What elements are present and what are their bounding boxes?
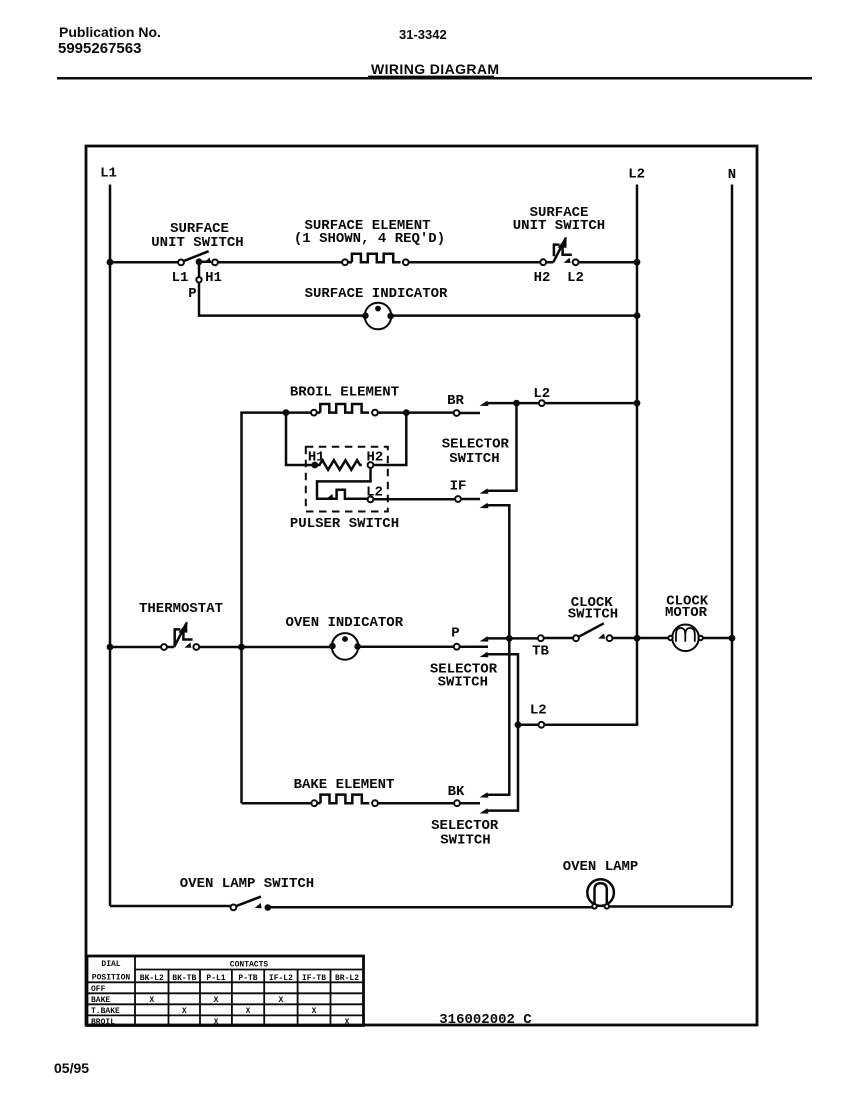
pulser H2 terminal: [368, 462, 374, 468]
wire broil left vertical (runs down to bake line): [242, 413, 311, 804]
surface unit switch (right) L2 terminal: [573, 259, 579, 265]
surface element heater: [352, 254, 401, 263]
wire broil line right part: [317, 411, 320, 414]
pulser L2 terminal: [368, 497, 374, 503]
wire L2 bus vertical: [636, 185, 639, 726]
pulser dashed enclosure: [306, 447, 388, 512]
BR terminal: [454, 410, 460, 416]
oven lamp switch left terminal: [231, 905, 237, 911]
svg-text:316002002 C: 316002002 C: [439, 1012, 532, 1028]
svg-text:BAKE ELEMENT: BAKE ELEMENT: [294, 777, 395, 793]
svg-text:L1: L1: [172, 270, 189, 286]
junction broil-left vertical crossing: [238, 644, 245, 651]
selector arm IF upper arrowhead: [480, 488, 489, 493]
svg-text:L2: L2: [533, 386, 550, 402]
svg-text:OFF: OFF: [91, 985, 106, 994]
BK terminal: [454, 800, 460, 806]
svg-text:OVEN LAMP: OVEN LAMP: [563, 859, 639, 875]
wire selector arm BR: [486, 402, 517, 405]
oven lamp: [587, 879, 614, 908]
svg-text:UNIT SWITCH: UNIT SWITCH: [513, 218, 605, 234]
svg-text:P-TB: P-TB: [238, 974, 257, 983]
svg-text:SURFACE INDICATOR: SURFACE INDICATOR: [305, 286, 448, 302]
wire N bus vertical: [731, 185, 734, 907]
svg-text:T.BAKE: T.BAKE: [91, 1007, 120, 1016]
bake element heater: [321, 795, 370, 804]
clock switch arm: [578, 623, 604, 637]
svg-text:P: P: [188, 286, 196, 302]
svg-text:SWITCH: SWITCH: [449, 451, 499, 467]
wire selector P upper arm: [486, 637, 509, 640]
thermostat left terminal: [161, 644, 167, 650]
svg-text:X: X: [149, 996, 154, 1005]
wire pulser internal drop: [317, 468, 371, 499]
surface unit switch (right) H2 terminal: [540, 259, 546, 265]
wire clock line: [509, 637, 538, 640]
wire lamp line left: [110, 905, 231, 908]
CONTACTS TABLE: [87, 956, 364, 1027]
surface unit switch (left) arm: [183, 251, 208, 261]
wire pulser output to IF: [373, 498, 455, 501]
junction P branch: [196, 258, 203, 265]
wire thermostat line left: [110, 646, 161, 649]
header rule: [57, 77, 812, 80]
svg-text:IF: IF: [450, 478, 467, 494]
table row lines: [87, 970, 364, 1016]
selector arm P upper arrowhead: [480, 636, 489, 641]
selector arm BK upper arrowhead: [480, 792, 489, 797]
svg-text:X: X: [214, 996, 219, 1005]
surface element right terminal: [403, 259, 409, 265]
svg-text:(1 SHOWN, 4 REQ'D): (1 SHOWN, 4 REQ'D): [294, 231, 445, 247]
junction L2 main line: [634, 259, 641, 266]
TB terminal: [538, 635, 544, 641]
svg-text:POSITION: POSITION: [92, 974, 131, 983]
svg-text:PULSER SWITCH: PULSER SWITCH: [290, 516, 399, 532]
svg-text:X: X: [246, 1007, 251, 1016]
svg-text:P: P: [451, 626, 459, 642]
svg-text:BROIL: BROIL: [91, 1018, 115, 1027]
svg-text:05/95: 05/95: [54, 1060, 89, 1076]
svg-text:BR: BR: [447, 393, 464, 409]
svg-text:MOTOR: MOTOR: [665, 605, 708, 621]
svg-text:L2: L2: [567, 270, 584, 286]
svg-text:BAKE: BAKE: [91, 996, 110, 1005]
surface unit switch (left) contact segment: [199, 261, 211, 264]
junction pulser H1: [311, 462, 318, 469]
schematic border box: [86, 146, 757, 1025]
svg-text:X: X: [312, 1007, 317, 1016]
junction L2 bus link: [634, 400, 641, 407]
bake element left terminal: [311, 800, 317, 806]
svg-text:CONTACTS: CONTACTS: [230, 961, 269, 970]
selector arm P lower arrowhead: [480, 652, 489, 657]
broil element left terminal: [311, 410, 317, 416]
wire bake line: [242, 802, 312, 805]
surface indicator lamp: [362, 303, 394, 330]
svg-text:IF-TB: IF-TB: [302, 974, 326, 983]
svg-text:P-L1: P-L1: [206, 974, 225, 983]
P branch terminal circle: [196, 277, 201, 282]
svg-text:X: X: [345, 1018, 350, 1027]
oven lamp switch right terminal dot: [265, 904, 272, 911]
junction N clock line: [729, 635, 736, 642]
oven lamp switch arm: [236, 897, 261, 907]
svg-text:L2: L2: [530, 703, 547, 719]
junction L1 main line: [107, 259, 114, 266]
wire pulser loop left vertical: [286, 413, 312, 465]
selector arm BR arrowhead: [480, 401, 489, 406]
junction L1 thermostat line: [107, 644, 114, 651]
svg-text:BR-L2: BR-L2: [335, 974, 359, 983]
broil element heater: [320, 404, 369, 413]
clock motor: [668, 625, 703, 652]
pulser switch arrowhead: [326, 494, 334, 499]
junction broil loop right: [403, 409, 410, 416]
wire main surface line segments: [110, 261, 178, 264]
svg-text:WIRING DIAGRAM: WIRING DIAGRAM: [371, 61, 499, 77]
clock switch right terminal: [607, 635, 613, 641]
wire L2 link line: [517, 402, 638, 405]
svg-text:H1: H1: [205, 270, 222, 286]
svg-text:OVEN LAMP SWITCH: OVEN LAMP SWITCH: [180, 876, 314, 892]
pulser heater zigzag: [315, 460, 362, 470]
oven indicator lamp: [329, 633, 361, 660]
svg-text:BK-TB: BK-TB: [172, 974, 196, 983]
L2 link terminal: [539, 400, 545, 406]
svg-text:X: X: [278, 996, 283, 1005]
svg-text:X: X: [182, 1007, 187, 1016]
svg-text:BROIL ELEMENT: BROIL ELEMENT: [290, 385, 399, 401]
svg-text:BK-L2: BK-L2: [140, 974, 164, 983]
thermostat flag symbol: [166, 622, 187, 647]
svg-text:H2: H2: [534, 270, 551, 286]
wire selector P lower arm to vertical: [486, 654, 518, 810]
wire L2 stub line: [518, 724, 539, 727]
selector arm BK lower arrowhead: [480, 808, 489, 813]
svg-text:SWITCH: SWITCH: [568, 606, 618, 622]
svg-text:DIAL: DIAL: [101, 960, 120, 969]
junction L2 clock line: [634, 635, 641, 642]
bake element right terminal: [372, 800, 378, 806]
surface unit switch (left) L1 terminal: [178, 260, 184, 266]
clock switch left terminal: [573, 635, 579, 641]
broil element right terminal: [372, 410, 378, 416]
svg-text:TB: TB: [532, 644, 549, 660]
svg-text:SWITCH: SWITCH: [438, 674, 488, 690]
P terminal: [454, 644, 460, 650]
surface unit switch (left) arrowhead: [204, 258, 211, 263]
selector arm IF lower arrowhead: [480, 503, 489, 508]
wire thermostat line to P: [199, 646, 332, 649]
wire pulser loop right vertical: [373, 413, 406, 465]
surface unit switch (right) flag symbol: [545, 238, 566, 263]
svg-text:L2: L2: [628, 167, 645, 183]
clock switch arrowhead: [598, 634, 605, 639]
surface unit switch (left) H1 terminal: [212, 260, 218, 266]
svg-text:IF-L2: IF-L2: [269, 974, 293, 983]
oven lamp switch arrowhead: [255, 903, 262, 908]
surface element left terminal: [342, 259, 348, 265]
svg-text:UNIT SWITCH: UNIT SWITCH: [151, 235, 243, 251]
wire selector IF lower arm to vertical: [486, 505, 509, 794]
svg-text:31-3342: 31-3342: [399, 27, 447, 42]
wire L1 bus vertical: [109, 185, 112, 907]
junction broil loop left: [283, 409, 290, 416]
svg-text:OVEN INDICATOR: OVEN INDICATOR: [285, 615, 403, 631]
svg-text:N: N: [728, 167, 736, 183]
wire lamp line right: [268, 905, 732, 908]
table column lines: [135, 956, 331, 1026]
svg-text:L1: L1: [100, 166, 117, 182]
svg-text:BK: BK: [448, 784, 465, 800]
junction L2 indicator line: [634, 312, 641, 319]
junction L2 stub: [515, 721, 522, 728]
svg-text:X: X: [214, 1018, 219, 1027]
wire selector bar vertical: [486, 403, 517, 491]
IF terminal: [455, 496, 461, 502]
L2 stub terminal: [539, 722, 545, 728]
junction selector/clock line: [506, 635, 513, 642]
thermostat right terminal: [193, 644, 199, 650]
svg-text:THERMOSTAT: THERMOSTAT: [139, 601, 223, 617]
wire P branch vertical: [199, 262, 637, 316]
svg-text:5995267563: 5995267563: [58, 40, 141, 57]
thermostat arrowhead: [184, 643, 191, 648]
junction selector bar top: [513, 400, 520, 407]
svg-text:Publication No.: Publication No.: [59, 24, 161, 40]
surface unit switch (right) arrowhead: [564, 258, 571, 263]
svg-text:SWITCH: SWITCH: [440, 832, 490, 848]
table outer border: [87, 956, 364, 1026]
